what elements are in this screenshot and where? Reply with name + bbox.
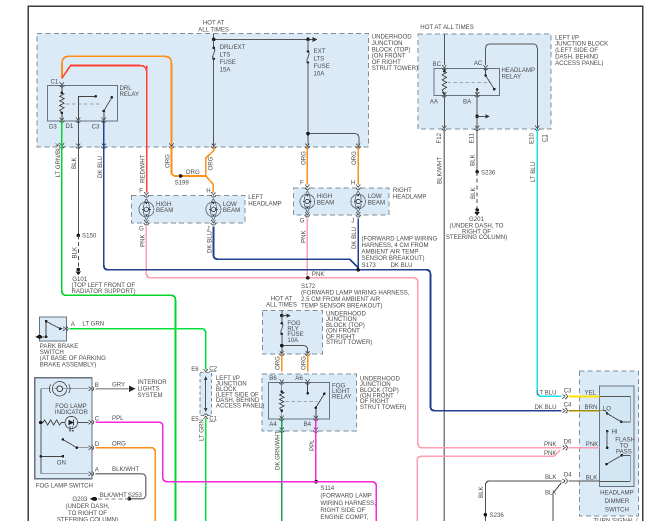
svg-text:ACCESS PANEL): ACCESS PANEL) bbox=[216, 402, 264, 409]
contact from pin D1 bbox=[78, 96, 95, 121]
splice S199 bbox=[179, 174, 183, 178]
connector C3 bbox=[562, 394, 567, 399]
svg-text:LO: LO bbox=[603, 406, 611, 413]
splice S236 bbox=[475, 170, 479, 174]
svg-text:BLK: BLK bbox=[470, 154, 477, 166]
wire GRY to interior lights bbox=[96, 388, 129, 390]
wire LT BLU from E10 to dimmer C3 bbox=[537, 129, 561, 396]
svg-text:S199: S199 bbox=[175, 180, 190, 187]
switch blade to pin C3 bbox=[104, 97, 112, 121]
svg-text:BLK/WHT: BLK/WHT bbox=[100, 492, 127, 499]
pin AA bbox=[442, 92, 447, 97]
svg-text:ORG: ORG bbox=[112, 440, 126, 447]
svg-text:S173: S173 bbox=[362, 262, 377, 269]
terminal E10 bbox=[535, 126, 540, 131]
svg-text:BEAM: BEAM bbox=[223, 207, 240, 214]
right headlamp assembly bbox=[293, 187, 426, 215]
svg-text:D1: D1 bbox=[66, 123, 74, 130]
switch blade bbox=[46, 321, 63, 328]
svg-text:D3: D3 bbox=[49, 124, 57, 131]
dashed actuator link bbox=[286, 400, 318, 402]
wire ORG from fog switch D bbox=[96, 448, 156, 521]
junction S (rail left) bbox=[212, 38, 216, 42]
wire DK BLU from C3 to dimmer C4 bbox=[104, 121, 562, 411]
svg-text:LT GRN/BLK: LT GRN/BLK bbox=[55, 143, 62, 178]
wire ORG to right low beam bbox=[357, 147, 359, 185]
switch blade from AC bbox=[486, 68, 495, 89]
note underhood junction block (relay) bbox=[360, 375, 406, 411]
arrow continue right bbox=[313, 37, 318, 42]
connector D4 with two BLK feeds bbox=[562, 478, 567, 483]
svg-text:ORG: ORG bbox=[351, 151, 358, 165]
pin F bbox=[144, 192, 149, 197]
pin C bbox=[89, 420, 94, 425]
svg-text:E6: E6 bbox=[191, 366, 199, 373]
wire BRN bbox=[569, 410, 600, 412]
svg-text:HEADLAMP: HEADLAMP bbox=[248, 201, 282, 208]
junction block pass-through (dashed bracket) bbox=[200, 372, 212, 415]
wire BLK dashed to G201 bbox=[476, 172, 478, 209]
ground G203 bbox=[93, 497, 97, 501]
svg-text:D4: D4 bbox=[564, 471, 572, 478]
wire PNK into switch bbox=[569, 447, 600, 449]
wire BLK/WHT dashed to G203 bbox=[96, 498, 130, 500]
dashed actuator link bbox=[448, 82, 487, 84]
terminal F12 bbox=[442, 126, 447, 131]
wire YEL bbox=[569, 395, 600, 397]
bottom row to pin A bbox=[41, 473, 89, 475]
text headlamp dimmer switch bbox=[593, 490, 637, 521]
switch blade to B4 bbox=[316, 394, 325, 419]
svg-text:ENGINE COMPT,: ENGINE COMPT, bbox=[320, 514, 368, 521]
svg-text:HOT AT: HOT AT bbox=[203, 20, 225, 27]
svg-text:LTS: LTS bbox=[314, 56, 325, 63]
pin AC bbox=[483, 65, 488, 70]
svg-text:D6: D6 bbox=[564, 439, 572, 446]
box4 bottom exits bbox=[279, 428, 284, 433]
svg-text:C3: C3 bbox=[92, 124, 100, 131]
wire BLK into switch bbox=[569, 480, 600, 482]
wire ORG to left low beam bbox=[206, 176, 214, 193]
wire DK GRN/WHT from A4 bbox=[281, 419, 283, 521]
splice S253 bbox=[127, 497, 131, 501]
svg-text:S253: S253 bbox=[128, 492, 143, 499]
note S114 harness bbox=[320, 493, 376, 521]
bulb left LOW BEAM bbox=[206, 199, 221, 221]
wire BLK from below to D4 bbox=[553, 483, 561, 521]
svg-text:BLK: BLK bbox=[71, 157, 78, 169]
svg-text:H: H bbox=[351, 180, 355, 187]
illumination bulb bbox=[41, 382, 89, 396]
svg-text:J: J bbox=[351, 218, 354, 225]
splice S236 (lower) bbox=[484, 513, 488, 517]
svg-text:BLK: BLK bbox=[586, 474, 598, 481]
svg-text:C3: C3 bbox=[564, 387, 572, 394]
contact from A6 bbox=[307, 383, 309, 394]
fuse FOG RLY FUSE 10A bbox=[281, 316, 304, 344]
svg-text:BEAM: BEAM bbox=[317, 200, 334, 207]
svg-text:AC: AC bbox=[474, 60, 483, 67]
resistor (indicator) bbox=[41, 420, 65, 425]
pin A6 bbox=[305, 379, 310, 384]
svg-text:C: C bbox=[95, 415, 100, 422]
ground G201 bbox=[446, 208, 507, 241]
wire branch to right lamp low beam bbox=[308, 134, 359, 147]
svg-text:STEERING COLUMN): STEERING COLUMN) bbox=[446, 234, 507, 241]
svg-text:PNK: PNK bbox=[300, 230, 307, 243]
svg-text:BC: BC bbox=[433, 61, 442, 68]
svg-text:C1: C1 bbox=[51, 79, 59, 86]
pin BA bbox=[474, 92, 479, 97]
svg-text:BEAM: BEAM bbox=[368, 200, 385, 207]
svg-text:DK BLU: DK BLU bbox=[391, 262, 413, 269]
arrow to interior lights system bbox=[129, 385, 135, 392]
splice S172 bbox=[306, 276, 310, 280]
dimmer internals: YEL loop bbox=[599, 396, 630, 422]
connector E6 (left I/P junction block) bbox=[203, 369, 208, 374]
svg-text:ORG: ORG bbox=[164, 154, 171, 168]
note left I/P junction block bbox=[216, 375, 264, 410]
svg-text:STEERING COLUMN): STEERING COLUMN) bbox=[57, 517, 118, 521]
wire LT GRN continues down bbox=[205, 419, 207, 521]
svg-text:G: G bbox=[139, 226, 144, 233]
svg-text:DK BLU: DK BLU bbox=[97, 156, 104, 178]
note forward lamp harness (S172) bbox=[301, 290, 410, 310]
connector C4 bbox=[562, 408, 567, 413]
wire BLK from E11 to S236 bbox=[476, 129, 478, 172]
pin A4 bbox=[279, 416, 284, 421]
svg-text:STRUT TOWER): STRUT TOWER) bbox=[326, 339, 372, 346]
svg-text:HEADLAMP: HEADLAMP bbox=[393, 193, 427, 200]
fog switch blade bbox=[63, 440, 88, 448]
left rail inside switch bbox=[40, 389, 42, 474]
ground G101 bbox=[72, 268, 136, 295]
bulb right LOW BEAM bbox=[351, 191, 366, 213]
svg-text:RELAY: RELAY bbox=[502, 74, 522, 81]
svg-text:S150: S150 bbox=[82, 233, 97, 240]
wire BLK dashed to ground bbox=[77, 235, 79, 268]
svg-text:YEL: YEL bbox=[585, 390, 597, 397]
wire PNK (second, from below) bbox=[417, 450, 560, 521]
svg-text:LT GRN: LT GRN bbox=[199, 419, 206, 441]
wire PNK from right G bbox=[306, 219, 308, 278]
svg-text:BA: BA bbox=[463, 99, 472, 106]
svg-text:BLK/WHT: BLK/WHT bbox=[436, 157, 443, 184]
wire LT GRN from park brake switch bbox=[70, 329, 206, 370]
wire crossing overlays (match target z-order) bbox=[142, 259, 451, 456]
pin B bbox=[89, 386, 94, 391]
coil of DRL relay bbox=[60, 86, 64, 122]
svg-text:ALL TIMES: ALL TIMES bbox=[198, 27, 229, 34]
svg-text:ON: ON bbox=[57, 460, 66, 467]
svg-text:E10: E10 bbox=[529, 133, 536, 144]
svg-text:G: G bbox=[300, 218, 305, 225]
svg-text:INDICATOR: INDICATOR bbox=[55, 409, 89, 416]
wire EXT fuse output bbox=[307, 63, 309, 147]
svg-text:HOT AT ALL TIMES: HOT AT ALL TIMES bbox=[420, 24, 474, 31]
svg-text:ORG: ORG bbox=[275, 356, 282, 370]
wire ORG to fog relay B6 bbox=[281, 354, 283, 371]
pin H bbox=[356, 185, 361, 190]
connector E5 bbox=[203, 414, 208, 419]
svg-text:BEAM: BEAM bbox=[156, 207, 173, 214]
svg-text:B6: B6 bbox=[269, 375, 277, 382]
svg-text:S114: S114 bbox=[320, 485, 334, 492]
left headlamp assembly bbox=[132, 194, 282, 223]
svg-text:E11: E11 bbox=[469, 132, 476, 143]
wire DK BLU from left J bbox=[213, 227, 358, 268]
svg-text:AA: AA bbox=[430, 99, 439, 106]
svg-text:F: F bbox=[139, 187, 143, 194]
wire BLK from S236 (bottom) bbox=[485, 481, 561, 521]
junction block U-JB1 (underhood, top) bbox=[37, 34, 418, 147]
connector D6 with two PNK feeds bbox=[562, 445, 567, 450]
wire LT GRN/BLK from D3 bbox=[62, 121, 176, 521]
pin B6 bbox=[279, 379, 284, 384]
relay K2 FOG LIGHT RELAY bbox=[269, 383, 330, 419]
junction block (fog relay) bbox=[262, 374, 357, 431]
svg-text:DK BLU: DK BLU bbox=[534, 404, 556, 411]
pin F bbox=[305, 185, 310, 190]
fuse EXT LTS FUSE 10A bbox=[307, 39, 330, 77]
svg-text:LT BLU: LT BLU bbox=[530, 162, 537, 182]
svg-text:F12: F12 bbox=[436, 132, 443, 143]
dimmer switch block bbox=[579, 371, 638, 516]
junction block U-JB (fog fuse) bbox=[262, 310, 322, 354]
svg-text:SWITCH: SWITCH bbox=[605, 507, 629, 514]
svg-text:WIRING HARNESS,: WIRING HARNESS, bbox=[320, 500, 376, 507]
pin H bbox=[211, 192, 216, 197]
svg-text:GRY: GRY bbox=[112, 382, 125, 389]
coil of headlamp relay bbox=[442, 68, 446, 95]
note left I/P junction block bbox=[555, 34, 608, 66]
wire PPL from fog switch C bbox=[96, 422, 377, 521]
wire fuse output + branch bbox=[281, 334, 283, 354]
svg-text:S236: S236 bbox=[481, 169, 496, 176]
ground (case) of park brake switch bbox=[41, 336, 47, 338]
svg-text:DIMMER: DIMMER bbox=[605, 498, 630, 505]
pin J bbox=[356, 212, 361, 217]
svg-text:PASS: PASS bbox=[616, 449, 632, 456]
svg-text:TURN SIGNAL /: TURN SIGNAL / bbox=[593, 517, 637, 521]
svg-text:C4: C4 bbox=[564, 402, 572, 409]
svg-text:S236: S236 bbox=[490, 512, 505, 519]
relay K1 DRL RELAY bbox=[47, 85, 139, 121]
svg-text:ORG: ORG bbox=[208, 156, 215, 170]
svg-text:DK BLU: DK BLU bbox=[351, 227, 358, 249]
park brake switch SW1 bbox=[39, 317, 66, 341]
wire BLK/WHT from fog switch A bbox=[96, 474, 146, 499]
wire AA down bbox=[443, 96, 445, 130]
svg-text:PNK: PNK bbox=[544, 441, 557, 448]
junction (rail right) bbox=[306, 38, 310, 42]
svg-text:10A: 10A bbox=[287, 337, 299, 344]
bulb left HIGH BEAM bbox=[139, 199, 154, 221]
svg-text:15A: 15A bbox=[220, 67, 232, 74]
wire ORG to right high beam bbox=[306, 147, 308, 185]
ON contact bbox=[41, 455, 63, 457]
svg-text:ORG: ORG bbox=[300, 151, 307, 165]
wire AC up and over to E10 bbox=[486, 44, 538, 129]
svg-text:BRAKE ASSEMBLY): BRAKE ASSEMBLY) bbox=[40, 361, 96, 368]
svg-text:ALL TIMES: ALL TIMES bbox=[266, 301, 297, 308]
pin C1 bbox=[59, 82, 64, 87]
svg-text:DRL/EXT: DRL/EXT bbox=[220, 44, 246, 51]
splice S150 bbox=[77, 234, 81, 238]
svg-text:TEMP SENSOR BREAKOUT): TEMP SENSOR BREAKOUT) bbox=[301, 302, 383, 309]
svg-text:B: B bbox=[95, 382, 99, 389]
terminal E11 bbox=[474, 126, 479, 131]
wire RED inside box1 bbox=[62, 66, 147, 147]
svg-text:ORG: ORG bbox=[301, 356, 308, 370]
coil of fog relay bbox=[280, 383, 284, 419]
svg-text:DK GRN/WHT: DK GRN/WHT bbox=[275, 430, 282, 470]
wire ORG from DRL/EXT fuse with jog bbox=[206, 147, 214, 176]
wire PPL from B4 to S114 bbox=[315, 419, 317, 482]
svg-text:10A: 10A bbox=[314, 71, 326, 78]
svg-text:(FORWARD LAMP: (FORWARD LAMP bbox=[320, 493, 371, 500]
junction bbox=[306, 132, 310, 136]
svg-text:SYSTEM: SYSTEM bbox=[138, 392, 163, 399]
svg-text:RIGHT SIDE OF: RIGHT SIDE OF bbox=[320, 507, 365, 514]
fog lamp switch SW2 bbox=[35, 378, 92, 479]
svg-text:LT GRN: LT GRN bbox=[82, 321, 104, 328]
wire ORG to fog relay A6 bbox=[307, 354, 309, 371]
wire ORG relay branch down to S199 bbox=[172, 147, 206, 176]
svg-text:BLK: BLK bbox=[470, 187, 477, 199]
switch body bbox=[599, 386, 634, 486]
svg-text:FOG LAMP SWITCH: FOG LAMP SWITCH bbox=[36, 483, 93, 490]
svg-text:HEADLAMP: HEADLAMP bbox=[600, 490, 634, 497]
HI contact bbox=[606, 430, 609, 433]
bulb right HIGH BEAM bbox=[300, 191, 315, 213]
svg-text:ACCESS PANEL): ACCESS PANEL) bbox=[555, 60, 603, 67]
svg-text:ORG: ORG bbox=[186, 169, 200, 176]
wire feed rail bbox=[214, 34, 313, 40]
svg-text:LTS: LTS bbox=[220, 52, 231, 59]
pin A bbox=[63, 326, 68, 331]
svg-text:DK BLU: DK BLU bbox=[206, 231, 213, 253]
pin D1 bbox=[76, 118, 81, 123]
svg-text:PPL: PPL bbox=[112, 415, 124, 422]
svg-text:PNK: PNK bbox=[312, 271, 325, 278]
pin B4 bbox=[313, 416, 318, 421]
pin J bbox=[211, 220, 216, 225]
svg-text:LT BLU: LT BLU bbox=[536, 390, 556, 397]
splice S114 bbox=[314, 480, 318, 484]
svg-text:BLK: BLK bbox=[71, 247, 78, 259]
svg-text:BLK: BLK bbox=[545, 474, 557, 481]
BLK loop bbox=[599, 455, 630, 481]
svg-text:A4: A4 bbox=[269, 421, 277, 428]
dashed actuator link bbox=[66, 103, 100, 105]
svg-text:RADIATOR SUPPORT): RADIATOR SUPPORT) bbox=[72, 288, 136, 295]
fuse DRL/EXT LTS FUSE 15A bbox=[212, 39, 245, 73]
svg-text:STRUT TOWER): STRUT TOWER) bbox=[360, 404, 406, 411]
svg-text:D: D bbox=[95, 441, 100, 448]
svg-text:RELAY: RELAY bbox=[120, 91, 140, 98]
pin C3 bbox=[101, 118, 106, 123]
svg-text:B4: B4 bbox=[304, 421, 312, 428]
svg-text:FUSE: FUSE bbox=[314, 63, 330, 70]
svg-text:A6: A6 bbox=[295, 375, 303, 382]
svg-text:PNK: PNK bbox=[139, 234, 146, 247]
wire DRL/EXT fuse output down bbox=[213, 59, 215, 147]
note forward lamp harness (right J) bbox=[362, 235, 438, 262]
pin A bbox=[89, 471, 94, 476]
junction block left I/P bbox=[418, 34, 551, 129]
wire BA down with branch arrow bbox=[476, 96, 478, 130]
svg-text:PNK: PNK bbox=[586, 441, 599, 448]
pin BC bbox=[442, 65, 447, 70]
svg-text:RELAY: RELAY bbox=[332, 393, 352, 400]
pin G bbox=[305, 212, 310, 217]
svg-text:EXT: EXT bbox=[314, 48, 326, 55]
pin D3 bbox=[59, 118, 64, 123]
splice S173 bbox=[356, 268, 360, 272]
wire RED/WHT to left high beam bbox=[146, 66, 148, 193]
svg-text:BLK: BLK bbox=[478, 486, 485, 498]
wire ORG inside box1 (relay feed) bbox=[62, 56, 172, 146]
wire BLK from D1 bbox=[77, 121, 79, 235]
contact to BA bbox=[476, 90, 478, 96]
wire feed to BC bbox=[443, 34, 445, 65]
note underhood junction block (fuse) bbox=[326, 311, 372, 347]
svg-text:FUSE: FUSE bbox=[220, 59, 236, 66]
wire feed into fuse bbox=[281, 310, 283, 315]
pin G bbox=[144, 220, 149, 225]
wire DK BLU from right J bbox=[357, 219, 359, 270]
pin D bbox=[89, 445, 94, 450]
wire PNK from left G to S172 bbox=[146, 227, 561, 448]
node HOT AT ALL TIMES (left feed) bbox=[198, 20, 229, 34]
svg-text:PPL: PPL bbox=[309, 439, 316, 451]
wire BLK/WHT from F12 bbox=[443, 129, 445, 521]
relay K3 HEADLAMP RELAY bbox=[434, 68, 499, 95]
svg-text:STRUT TOWER): STRUT TOWER) bbox=[372, 65, 418, 72]
box1 bottom edge exit marks bbox=[59, 143, 64, 148]
svg-text:H: H bbox=[206, 187, 210, 194]
svg-text:RED/WHT: RED/WHT bbox=[140, 154, 147, 183]
svg-text:BLK/WHT: BLK/WHT bbox=[112, 466, 139, 473]
svg-text:HI: HI bbox=[612, 428, 618, 435]
svg-text:F: F bbox=[300, 180, 304, 187]
svg-text:BRN: BRN bbox=[585, 404, 598, 411]
LED fog lamp indicator bbox=[65, 416, 88, 431]
wire through junction block bbox=[205, 378, 207, 411]
